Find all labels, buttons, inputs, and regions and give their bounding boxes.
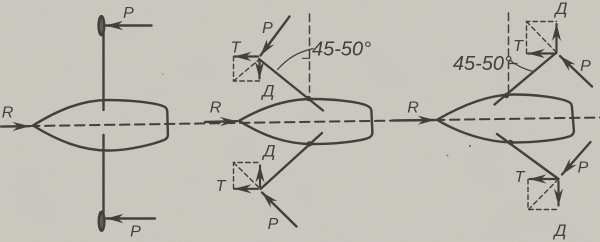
svg-text:T: T <box>216 178 227 195</box>
svg-text:P: P <box>578 160 589 177</box>
svg-text:T: T <box>515 169 526 186</box>
svg-text:P: P <box>130 224 141 241</box>
svg-text:P: P <box>268 216 279 233</box>
svg-text:T: T <box>231 40 242 57</box>
svg-text:R: R <box>407 100 419 117</box>
svg-text:45-50°: 45-50° <box>312 39 371 61</box>
svg-text:Д: Д <box>262 142 276 161</box>
svg-text:P: P <box>123 5 134 22</box>
svg-text:Д: Д <box>261 82 275 101</box>
svg-text:45-50°: 45-50° <box>453 53 512 75</box>
svg-text:Д: Д <box>553 221 567 240</box>
svg-text:R: R <box>2 105 14 122</box>
svg-text:T: T <box>513 38 524 55</box>
svg-text:P: P <box>580 58 591 75</box>
svg-text:P: P <box>262 20 273 37</box>
svg-text:Д: Д <box>554 0 568 18</box>
svg-text:R: R <box>210 100 222 117</box>
